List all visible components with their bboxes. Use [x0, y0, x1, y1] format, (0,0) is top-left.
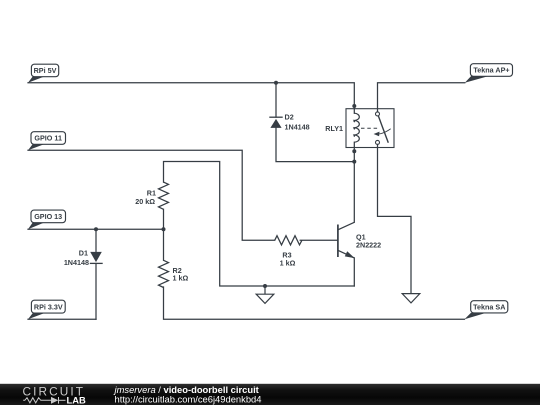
svg-text:GPIO 13: GPIO 13: [34, 212, 62, 221]
transistor Q1 2N2222: [338, 222, 354, 258]
svg-text:RPi 5V: RPi 5V: [34, 66, 57, 75]
footer black bar: [0, 384, 540, 405]
diode D1 1N4148: [90, 252, 103, 264]
resistor R1: [159, 182, 169, 209]
wire R1 top to ground rail: [164, 162, 355, 287]
svg-text:20 kΩ: 20 kΩ: [135, 197, 155, 206]
net flag RPi 3.3V: [28, 300, 65, 319]
svg-text:RLY1: RLY1: [325, 124, 343, 133]
svg-text:1 kΩ: 1 kΩ: [280, 259, 296, 268]
net flag Tekna AP+: [465, 64, 513, 83]
relay switch arrow: [379, 129, 391, 134]
svg-text:D1: D1: [79, 248, 88, 257]
relay RLY1: [346, 109, 394, 148]
node dot D2/coil junction: [352, 160, 356, 164]
node dot D1/GPIO13: [94, 227, 98, 231]
svg-text:2N2222: 2N2222: [356, 241, 381, 250]
node dot relay coil bottom pin: [352, 149, 356, 153]
svg-text:D2: D2: [285, 113, 294, 122]
wire R3 to Q1 base: [300, 239, 337, 241]
node dot D2/5V rail: [274, 81, 278, 85]
svg-text:1N4148: 1N4148: [285, 123, 310, 132]
relay switch blade: [378, 116, 388, 143]
wire D2 branch top: [275, 83, 277, 117]
net flag GPIO 11: [28, 132, 66, 151]
wire GPIO 11 to R3: [28, 150, 275, 240]
relay box: [346, 109, 394, 148]
wire Q1 emitter to ground rail: [353, 258, 355, 286]
wire RPi 3.3V rail: [28, 318, 96, 320]
svg-text:RPi 3.3V: RPi 3.3V: [34, 302, 63, 311]
ground right: [402, 294, 420, 303]
wire RPi 5V rail to relay coil: [28, 83, 354, 114]
relay switch contacts: [376, 112, 380, 116]
resistor R3: [275, 236, 302, 245]
resistor R2: [159, 260, 169, 287]
node dot relay coil top pin: [352, 104, 356, 108]
svg-text:Tekna SA: Tekna SA: [473, 302, 505, 311]
ground left: [256, 286, 274, 303]
wire D1 branch top: [95, 229, 97, 252]
svg-text:1 kΩ: 1 kΩ: [173, 274, 189, 283]
node dot R1/R2/GPIO13: [162, 227, 166, 231]
wire GPIO 13 rail: [28, 228, 164, 230]
diode D2 1N4148: [269, 117, 282, 128]
net flag RPi 5V: [28, 64, 59, 83]
CircuitLab logo circuit glyph: [23, 397, 65, 404]
svg-text:1N4148: 1N4148: [64, 258, 89, 267]
wire relay switch top to Tekna AP+: [378, 83, 465, 112]
svg-text:GPIO 11: GPIO 11: [34, 134, 62, 143]
wire R1 bottom lead: [163, 209, 165, 229]
net flag GPIO 13: [28, 210, 66, 229]
wire D1 branch bottom to 3.3V rail: [95, 264, 97, 320]
wire R2 top lead: [163, 229, 165, 260]
wire D2 branch bottom to coil line: [276, 128, 354, 162]
wire relay switch bottom to right ground: [378, 145, 412, 294]
svg-text:http://circuitlab.com/ce6j49de: http://circuitlab.com/ce6j49denkbd4: [115, 394, 262, 405]
relay coil: [354, 113, 359, 142]
net flag Tekna SA: [465, 301, 508, 320]
relay dashed actuation line: [361, 127, 379, 129]
svg-text:LAB: LAB: [67, 394, 86, 405]
wire coil bottom to D2 junction to Q1 collector: [353, 142, 355, 222]
wire R2 bottom to Tekna SA: [164, 287, 465, 319]
svg-text:Tekna AP+: Tekna AP+: [473, 65, 509, 74]
node dot ground/emitter rail: [263, 284, 267, 288]
svg-text:R1: R1: [147, 188, 156, 197]
